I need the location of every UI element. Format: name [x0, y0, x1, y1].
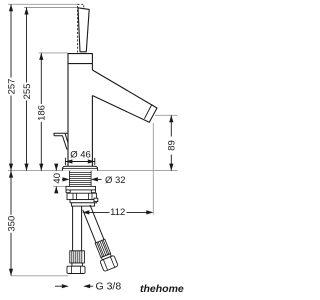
svg-text:89: 89: [167, 140, 178, 151]
extension line top 257 (handle vertical top): [8, 3, 78, 5]
svg-text:G 3/8: G 3/8: [96, 281, 122, 293]
extension line spout tip vertical: [152, 123, 154, 215]
diagonal hose end nut: [100, 255, 118, 271]
dimension diameter 32: [63, 177, 70, 181]
svg-text:186: 186: [37, 105, 48, 121]
threaded shank: [69, 171, 91, 187]
straight hose end nut G3/8: [72, 263, 83, 266]
diagonal hose neck: [101, 254, 111, 260]
dimension max 40: [55, 164, 57, 171]
mounting nut: [67, 193, 96, 199]
svg-text:112: 112: [110, 207, 125, 218]
diagonal hose: [83, 210, 96, 243]
coupling side stub: [94, 198, 98, 201]
svg-text:40: 40: [52, 173, 63, 184]
hose coupling block: [70, 200, 96, 203]
extension line 186 (body top): [39, 52, 69, 54]
dimension 112: [88, 211, 147, 213]
handle lever (tilted, solid): [78, 8, 89, 52]
body cap and column: [68, 54, 92, 167]
dimension 186: [40, 53, 42, 171]
diagonal hose ferrule (hatched): [95, 239, 110, 257]
mounting washer: [66, 186, 96, 190]
straight hose ferrule (hatched): [70, 251, 85, 263]
diagonal supply hose assembly: [79, 204, 118, 272]
spout: [92, 70, 157, 122]
extension line top 255 (handle tilted top): [24, 7, 78, 9]
svg-text:thehome: thehome: [140, 283, 184, 295]
extension line deck / counter top: [8, 170, 178, 172]
extension line spout outlet height: [155, 114, 178, 116]
dimension G 3/8: [55, 285, 63, 287]
dimension 257: [10, 4, 12, 170]
svg-text:Ø 46: Ø 46: [70, 150, 91, 161]
svg-text:Ø 32: Ø 32: [105, 175, 126, 186]
extension line washer top (max40): [53, 185, 67, 187]
dimension 350: [10, 171, 12, 276]
hose crimp collar: [72, 203, 95, 206]
escutcheon base plate: [62, 166, 97, 170]
extension line hose bottom 350: [11, 275, 68, 277]
drain pull lever: [54, 133, 68, 149]
aerator line at spout tip: [144, 104, 152, 119]
svg-text:350: 350: [6, 216, 17, 232]
dimension 255: [26, 8, 28, 171]
svg-text:255: 255: [22, 84, 33, 100]
svg-text:257: 257: [6, 79, 17, 95]
handle dashed outline (vertical position): [78, 4, 84, 52]
straight supply hose: [72, 206, 74, 251]
dimension 89: [170, 115, 172, 170]
